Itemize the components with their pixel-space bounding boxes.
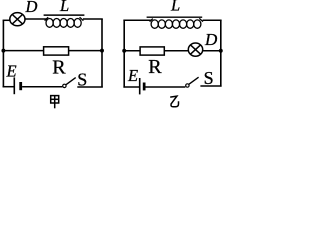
wire: resistor to lamp (right circuit) [164,50,188,52]
lamp D (right circuit) [188,43,202,56]
wire: right vertical (right circuit) [220,20,222,86]
wire: left vertical (right circuit) [123,20,125,88]
node: middle-left junction (right circuit) [122,49,126,53]
svg-text:L: L [170,0,180,15]
svg-text:D: D [204,30,218,49]
node: middle-left junction [1,49,5,53]
inductor L coil (right) [150,18,203,28]
wire: switch to bottom-right corner (right circuit) [200,85,221,87]
wire: top-left stub to lamp [3,19,11,21]
wire: lamp to inductor [24,18,46,20]
wire: battery to switch [22,86,62,88]
label jia (left circuit caption) [51,96,59,109]
wire: battery to switch (right circuit) [146,86,186,88]
node: middle-right junction (right circuit) [219,49,223,53]
svg-text:L: L [59,0,69,15]
wire: middle wire left of resistor [3,50,44,52]
wire: middle wire right of resistor [69,50,102,52]
wire: right vertical [101,19,103,87]
wire: switch to bottom-right corner [77,86,103,88]
switch S (left circuit) [63,78,76,88]
wire: inductor to top-right corner (right circuit) [203,19,222,21]
battery E (left circuit) [14,77,22,94]
svg-text:R: R [148,56,162,78]
svg-text:D: D [25,0,38,16]
battery E (right circuit) [140,78,146,94]
wire: bottom wire to battery [3,86,15,88]
wire: left vertical [2,20,4,87]
switch S (right circuit) [186,77,199,87]
wire: bottom wire to battery (right circuit) [123,86,139,88]
wire: inductor to top-right corner [83,18,103,20]
resistor R (left circuit) [44,47,69,55]
node: middle-right junction [100,49,104,53]
inductor L core line (right) [147,16,203,18]
svg-text:R: R [52,57,66,79]
wire: middle wire to resistor (right circuit) [124,50,140,52]
inductor L coil (left) [45,17,84,27]
inductor L core line (left) [44,14,85,16]
svg-text:E: E [127,66,138,85]
label yi (right circuit caption) [170,96,178,107]
wire: top wire to inductor (right circuit) [123,19,151,21]
svg-text:E: E [6,62,17,81]
lamp D (left circuit) [10,13,25,26]
svg-text:S: S [204,68,214,88]
wire: lamp to middle-right junction (right circuit) [203,50,221,52]
resistor R (right circuit) [140,47,164,55]
